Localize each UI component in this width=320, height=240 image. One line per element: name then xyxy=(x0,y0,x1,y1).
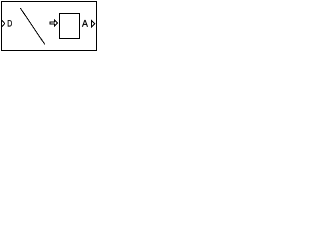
inner square box xyxy=(60,14,80,39)
svg-text:A: A xyxy=(82,19,88,30)
background xyxy=(0,0,99,53)
hollow block arrow xyxy=(50,20,58,26)
input pin marker (port D chevron) xyxy=(2,20,5,27)
svg-text:D: D xyxy=(7,19,12,29)
block body outline xyxy=(2,2,97,51)
output pin marker (port A triangle) xyxy=(92,20,95,27)
diagonal ramp line xyxy=(20,8,45,44)
